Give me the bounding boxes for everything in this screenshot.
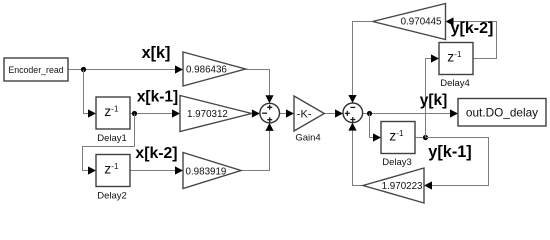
wire sum S1 to Gain4	[280, 113, 288, 115]
wire y[k-1] up to Delay4 input	[426, 59, 433, 138]
wire Delay2 output to gain G3	[130, 170, 176, 172]
wire y[k-1] feedback to gain G6	[426, 138, 489, 186]
wire gain G1 output to sum S1 top	[246, 70, 270, 97]
sink block out.DO_delay	[458, 99, 546, 127]
gain G5 value 0.970445 (left pointing)	[373, 4, 446, 40]
svg-text:0.983919: 0.983919	[186, 166, 227, 177]
sum S2	[343, 103, 363, 123]
svg-text:Delay3: Delay3	[382, 157, 412, 168]
wire gain G2 output to sum S1 left	[252, 109, 260, 117]
svg-text:y[k]: y[k]	[420, 92, 448, 109]
wire Delay3 output to junction	[415, 137, 426, 139]
svg-text:out.DO_delay: out.DO_delay	[466, 106, 538, 120]
svg-text:x[k-2]: x[k-2]	[135, 145, 177, 162]
svg-text:Delay2: Delay2	[97, 191, 127, 202]
svg-text:y[k-1]: y[k-1]	[428, 143, 471, 161]
wire gain G6 output to sum S2 bottom	[353, 131, 364, 186]
svg-text:Delay4: Delay4	[440, 78, 470, 89]
gain G3 value 0.983919	[183, 153, 241, 189]
svg-text:y[k-2]: y[k-2]	[451, 20, 494, 37]
junction node y[k]	[367, 111, 372, 116]
junction node after Delay1	[132, 111, 137, 116]
wire Delay4 output to gain G5	[453, 22, 497, 59]
wire Encoder_read to gain G1	[68, 69, 176, 71]
sum S1	[260, 103, 280, 123]
delay block Delay2	[96, 155, 130, 202]
gain G2 value 1.970312	[180, 96, 252, 132]
wire gain G3 output to sum S1 bottom	[241, 131, 270, 171]
junction node after Encoder_read	[81, 67, 86, 72]
gain G6 value 1.970223 (left pointing)	[363, 168, 424, 203]
svg-text:Gain4: Gain4	[295, 133, 320, 144]
svg-text:1.970223: 1.970223	[382, 181, 423, 192]
svg-text:0.970445: 0.970445	[401, 17, 442, 28]
wire Gain4 to sum S2 left	[324, 113, 336, 115]
junction node y[k-1]	[423, 135, 428, 140]
svg-text:Encoder_read: Encoder_read	[8, 65, 63, 75]
svg-text:x[k]: x[k]	[142, 44, 171, 62]
wire y[k] down to Delay3 input	[370, 114, 375, 138]
svg-text:1.970312: 1.970312	[187, 109, 228, 120]
wire Delay1 output down-left-down to Delay2 input	[83, 114, 135, 171]
gain Gain4 -K-	[294, 96, 324, 144]
source block Encoder_read	[4, 58, 68, 81]
delay block Delay4	[439, 43, 473, 90]
delay block Delay3	[381, 122, 415, 169]
gain G1 value 0.986436	[183, 52, 246, 86]
svg-text:Delay1: Delay1	[97, 133, 127, 144]
delay block Delay1	[96, 97, 130, 144]
wire gain G5 output to sum S2 top	[353, 22, 373, 96]
wire junction down to Delay1 input	[84, 70, 90, 114]
wire Delay1 output to gain G2	[130, 113, 173, 115]
svg-text:0.986436: 0.986436	[186, 64, 227, 75]
svg-text:-K-: -K-	[297, 108, 312, 120]
wire sum S2 output to out.DO_delay	[363, 113, 451, 115]
svg-text:x[k-1]: x[k-1]	[137, 88, 178, 105]
